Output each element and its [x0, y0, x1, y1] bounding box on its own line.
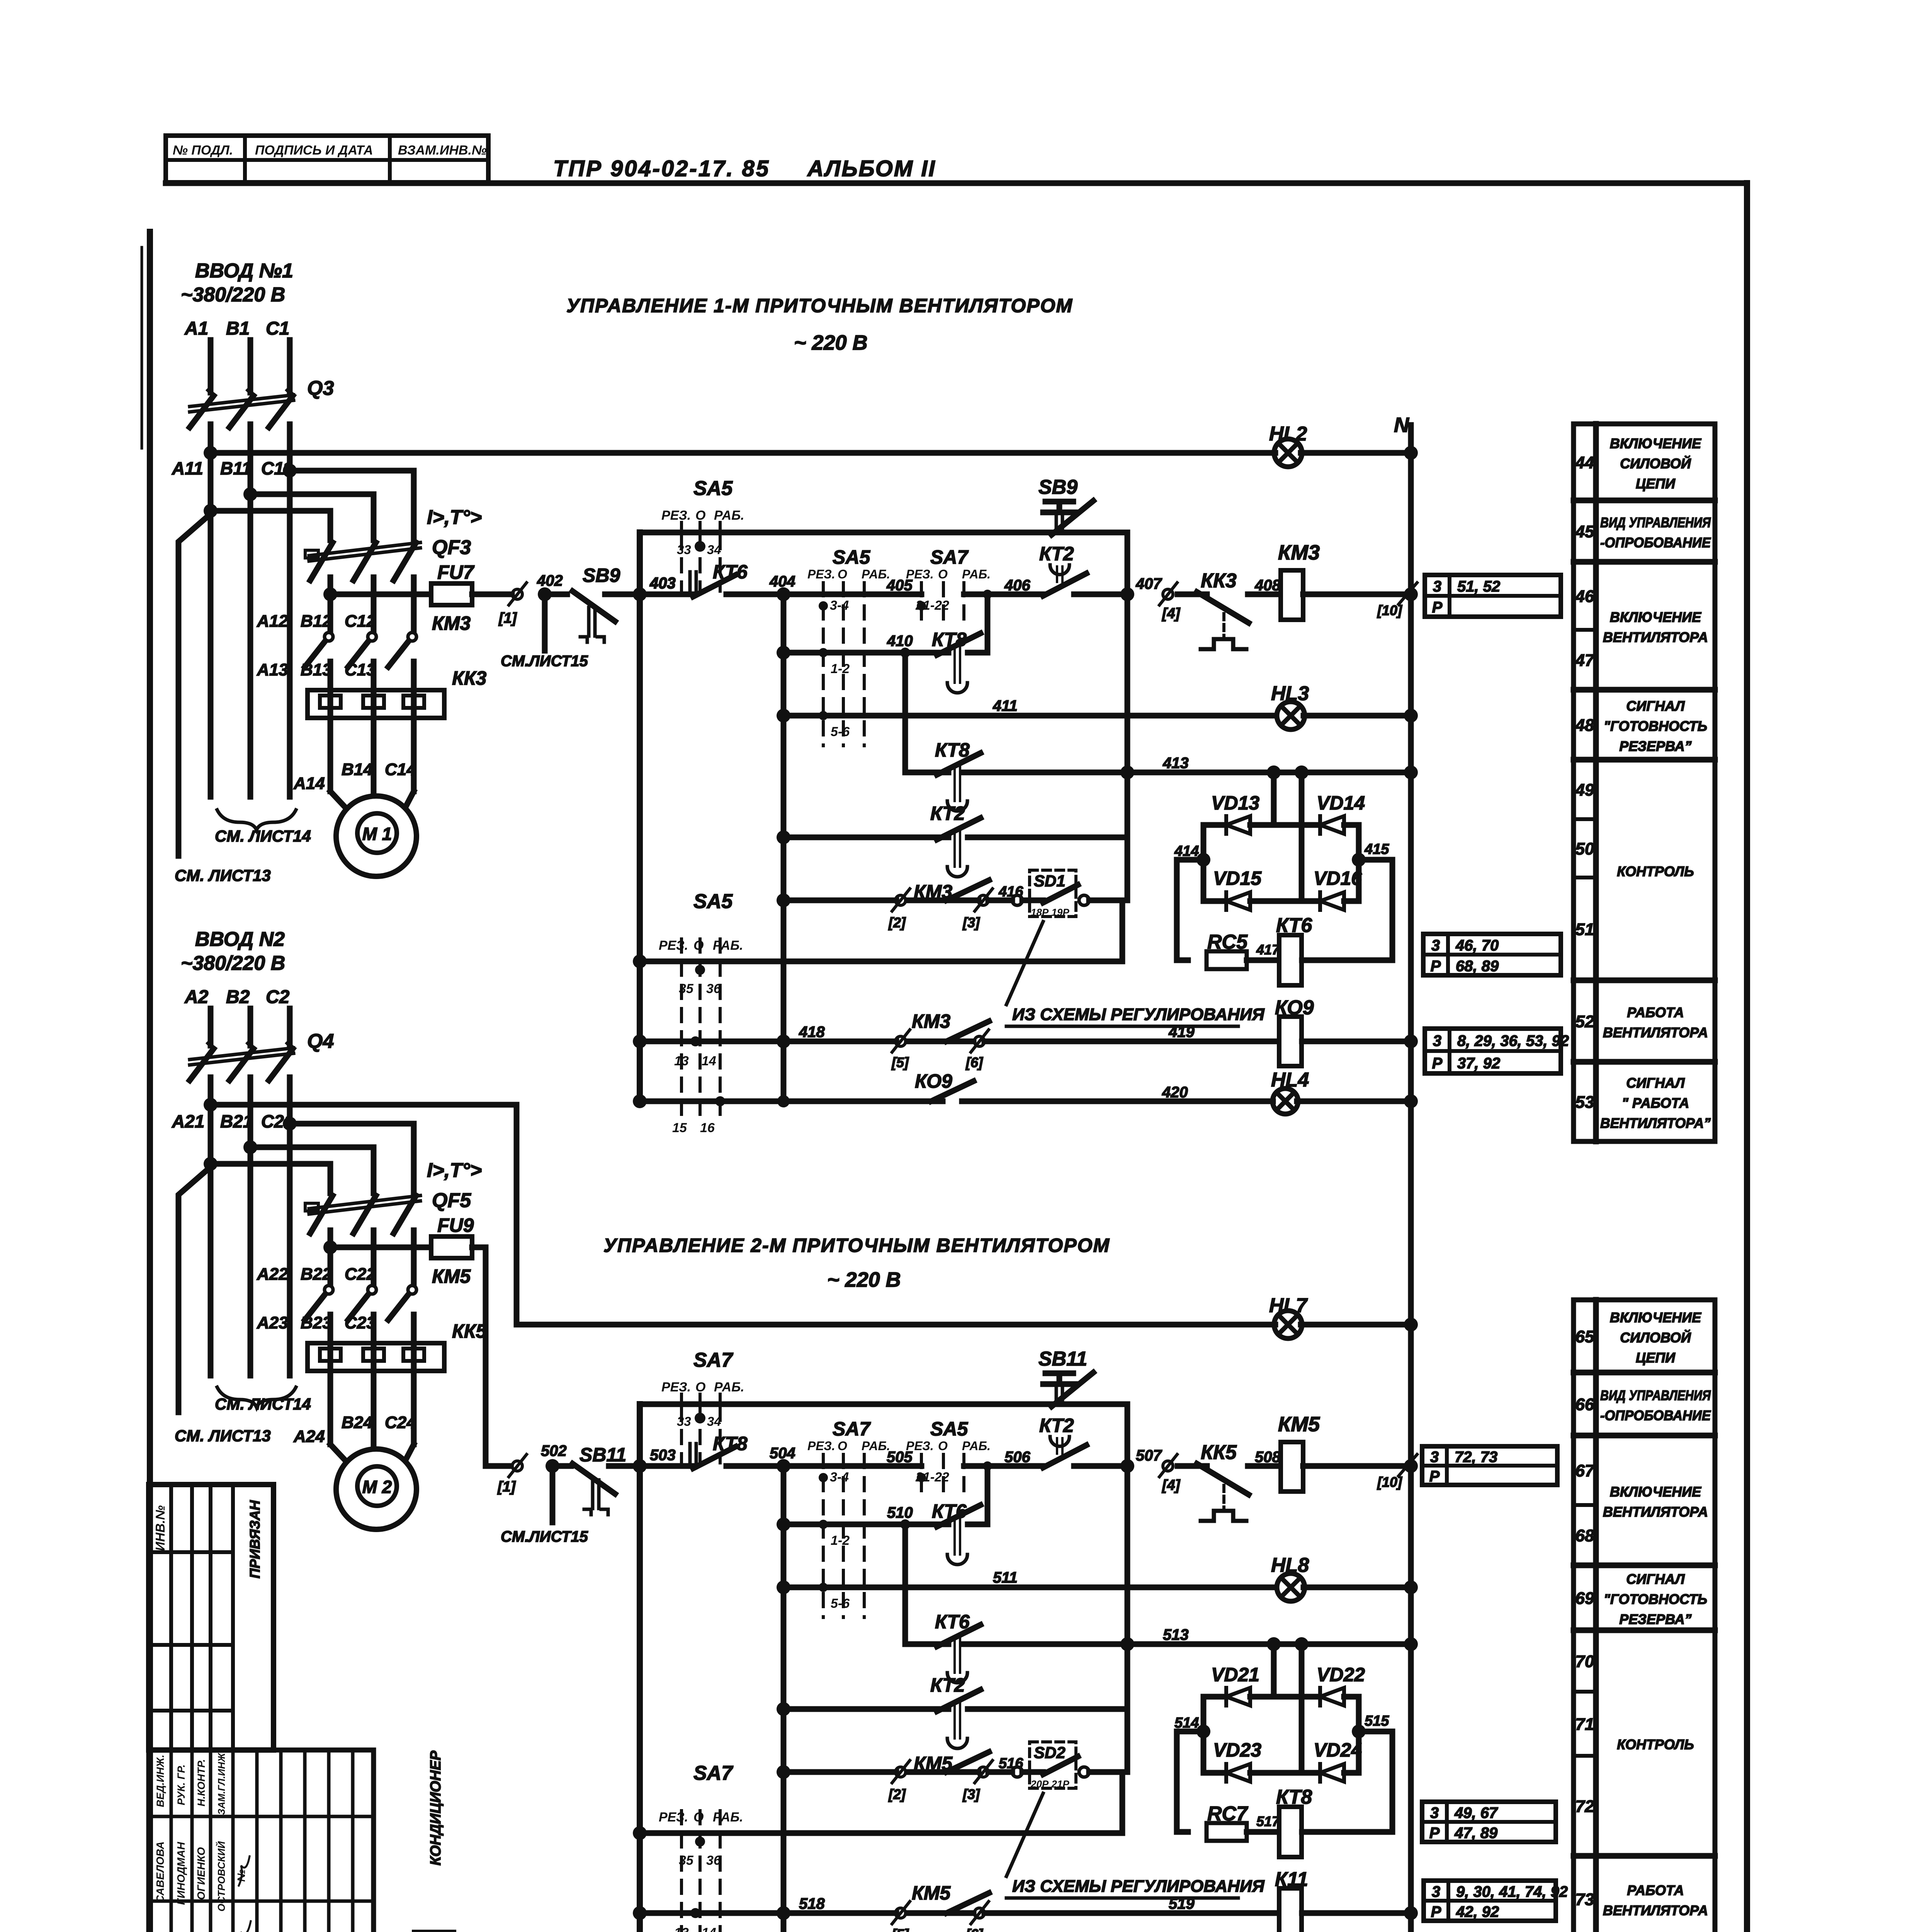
svg-text:35: 35: [679, 981, 694, 996]
right vertical from SB: [1125, 1404, 1130, 1466]
svg-text:А12: А12: [257, 612, 288, 631]
svg-text:36: 36: [706, 981, 721, 996]
svg-text:13: 13: [674, 1054, 689, 1068]
svg-text:С14: С14: [385, 760, 416, 779]
svg-text:ТПР 904-02-17. 85: ТПР 904-02-17. 85: [553, 156, 770, 181]
svg-text:М 1: М 1: [362, 824, 392, 844]
svg-text:21-22: 21-22: [915, 1470, 949, 1485]
svg-text:КТ2: КТ2: [930, 803, 965, 824]
svg-text:КК3: КК3: [452, 667, 486, 689]
svg-text:№: №: [235, 1869, 247, 1882]
svg-text:А1: А1: [184, 318, 208, 339]
svg-text:ИЗ СХЕМЫ РЕГУЛИРОВАНИЯ: ИЗ СХЕМЫ РЕГУЛИРОВАНИЯ: [1012, 1005, 1265, 1024]
svg-text:34: 34: [707, 543, 721, 557]
wire 503: [633, 1459, 647, 1473]
svg-text:[4]: [4]: [1162, 1477, 1181, 1493]
svg-text:48: 48: [1575, 716, 1594, 735]
svg-text:5-6: 5-6: [831, 1596, 850, 1611]
svg-text:73: 73: [1575, 1890, 1594, 1909]
svg-text:3: 3: [1432, 1883, 1440, 1900]
svg-text:3-4: 3-4: [830, 1470, 849, 1485]
svg-text:РЕЗ.: РЕЗ.: [906, 567, 934, 581]
wires to motor: [328, 718, 333, 791]
svg-text:1-2: 1-2: [831, 1533, 850, 1548]
svg-text:СМ. ЛИСТ14: СМ. ЛИСТ14: [215, 1395, 311, 1413]
svg-text:72: 72: [1575, 1797, 1594, 1816]
svg-text:РАБОТА: РАБОТА: [1627, 1005, 1684, 1020]
diode bridge left vertical: [1201, 1697, 1207, 1773]
svg-text:15: 15: [672, 1121, 687, 1135]
cross-reference box 3:8,29,36,53,92: [1425, 1029, 1561, 1073]
svg-text:РАБ.: РАБ.: [713, 1810, 743, 1825]
svg-text:411: 411: [992, 697, 1018, 714]
svg-text:ИЗ СХЕМЫ РЕГУЛИРОВАНИЯ: ИЗ СХЕМЫ РЕГУЛИРОВАНИЯ: [1012, 1877, 1265, 1896]
svg-text:HL2: HL2: [1269, 423, 1307, 445]
wire 35-36 row: [633, 1826, 647, 1840]
node 402: [538, 587, 552, 601]
svg-text:13: 13: [674, 1925, 689, 1932]
fuse row tap at pole A: [323, 1240, 337, 1254]
svg-text:ВИД УПРАВЛЕНИЯ: ВИД УПРАВЛЕНИЯ: [1600, 1388, 1711, 1403]
fuse FU7: [431, 583, 472, 605]
wire coil to N: [1303, 592, 1411, 597]
svg-text:ЗАМ.ГЛ.ИНЖ: ЗАМ.ГЛ.ИНЖ: [216, 1752, 227, 1815]
svg-text:С24: С24: [385, 1413, 416, 1432]
wire 420 to lamp: [962, 1099, 1273, 1104]
svg-text:SD1: SD1: [1034, 872, 1066, 890]
wire 406: [964, 592, 1043, 597]
wire to sheet15 feeder2: [550, 1466, 556, 1522]
svg-text:[2]: [2]: [888, 915, 906, 930]
svg-text:РЕЗ.: РЕЗ.: [659, 938, 688, 953]
svg-text:А14: А14: [293, 774, 325, 793]
relay contact КТ2 row: [777, 1702, 790, 1716]
wire FU9 to row 502: [472, 1247, 510, 1466]
svg-text:3-4: 3-4: [830, 598, 849, 613]
vertical 35-36 row to coil row: [1120, 900, 1125, 961]
wire coil to N: [1303, 1463, 1411, 1469]
svg-text:В23: В23: [301, 1313, 332, 1332]
wire 506: [964, 1463, 1043, 1469]
wire 420: [633, 1094, 647, 1108]
svg-text:71: 71: [1575, 1715, 1594, 1734]
svg-text:Р: Р: [1431, 1903, 1441, 1920]
diode bridge right vertical: [1356, 825, 1362, 901]
title block signature grid: [149, 1750, 374, 1932]
right vertical from SB: [1125, 532, 1130, 594]
disconnect switch Q3: [190, 396, 214, 427]
wire feed row to N: [1301, 1322, 1411, 1328]
svg-text:А21: А21: [172, 1111, 204, 1131]
svg-text:КТ2: КТ2: [930, 1674, 965, 1696]
tap of phase C to breaker: [283, 464, 297, 478]
svg-text:VD16: VD16: [1314, 867, 1362, 889]
svg-text:ВЕНТИЛЯТОРА: ВЕНТИЛЯТОРА: [1603, 1504, 1708, 1520]
svg-text:РЕЗ.: РЕЗ.: [807, 1439, 835, 1453]
svg-text:[5]: [5]: [891, 1054, 909, 1070]
svg-text:РЕЗ.: РЕЗ.: [661, 1380, 691, 1395]
detachable link [1]: [512, 589, 522, 599]
wire 411: [777, 709, 790, 723]
svg-text:СМ.ЛИСТ15: СМ.ЛИСТ15: [501, 1528, 588, 1545]
svg-text:РАБ.: РАБ.: [862, 567, 890, 581]
wire 418: [633, 1034, 647, 1048]
svg-text:Р: Р: [1432, 599, 1443, 616]
svg-text:-ОПРОБОВАНИЕ: -ОПРОБОВАНИЕ: [1600, 535, 1711, 551]
svg-text:УПРАВЛЕНИЕ 1-М ПРИТОЧНЫМ ВЕ: УПРАВЛЕНИЕ 1-М ПРИТОЧНЫМ ВЕНТИЛЯТОРОМ: [566, 295, 1073, 316]
svg-text:[2]: [2]: [888, 1786, 906, 1802]
bus vertical left: [637, 532, 643, 1101]
wire 519 to N: [1302, 1910, 1411, 1916]
regulation scheme note: [1006, 1793, 1043, 1876]
branch to sheet13: [178, 514, 211, 856]
svg-text:SB9: SB9: [583, 565, 620, 586]
svg-text:513: 513: [1163, 1626, 1189, 1643]
svg-text:42, 92: 42, 92: [1456, 1903, 1499, 1920]
svg-text:52: 52: [1575, 1012, 1594, 1031]
svg-text:[10]: [10]: [1377, 602, 1402, 618]
svg-text:518: 518: [799, 1895, 825, 1912]
title block upper grid: [149, 1485, 274, 1750]
cross-reference box 3:46,70: [1423, 934, 1561, 975]
plug connector SD1: [1030, 870, 1076, 917]
svg-text:[6]: [6]: [965, 1054, 983, 1070]
svg-text:КОНТРОЛЬ: КОНТРОЛЬ: [1617, 1736, 1694, 1752]
svg-text:В1: В1: [226, 318, 250, 339]
wire feed row 1 from phase A to HL2: [204, 446, 218, 460]
svg-text:[4]: [4]: [1162, 605, 1181, 622]
svg-text:В12: В12: [301, 612, 332, 631]
svg-text:О: О: [695, 1380, 705, 1395]
svg-text:416: 416: [998, 884, 1023, 900]
wire 407: [1074, 592, 1127, 597]
svg-text:РЕЗ.: РЕЗ.: [661, 508, 691, 523]
svg-text:РАБ.: РАБ.: [713, 938, 743, 953]
svg-text:А23: А23: [257, 1313, 288, 1332]
svg-text:В13: В13: [301, 660, 332, 679]
wire coil КТ6 to node 415: [1302, 957, 1392, 963]
svg-text:510: 510: [887, 1504, 913, 1521]
svg-text:В14: В14: [342, 760, 373, 779]
svg-text:3: 3: [1433, 578, 1441, 595]
svg-text:ОСТРОВСКИЙ: ОСТРОВСКИЙ: [216, 1841, 227, 1912]
phase wires А2 В2 С2: [208, 1009, 214, 1046]
svg-text:С12: С12: [345, 612, 376, 631]
svg-text:18Р 19Р: 18Р 19Р: [1031, 906, 1069, 918]
svg-text:8, 29, 36, 53, 92: 8, 29, 36, 53, 92: [1457, 1032, 1569, 1049]
auxiliary contact КМ5 with SD row 516: [777, 1765, 790, 1779]
svg-text:VD22: VD22: [1317, 1664, 1365, 1685]
node 414: [1196, 853, 1210, 867]
tap of phase B to breaker: [243, 487, 257, 501]
breaker pole wires: [328, 1230, 333, 1284]
svg-text:QF5: QF5: [432, 1189, 471, 1212]
wire 511 to N: [1303, 1585, 1411, 1590]
jog vertical to 406: [985, 594, 991, 653]
svg-text:VD13: VD13: [1211, 792, 1259, 814]
svg-text:РАБ.: РАБ.: [714, 508, 744, 523]
auxiliary contact КМ3 with SD row 416: [777, 893, 790, 907]
svg-text:N: N: [1394, 413, 1409, 437]
wire 401 top bus: [640, 530, 1127, 536]
svg-text:ВЕНТИЛЯТОРА: ВЕНТИЛЯТОРА: [1603, 629, 1708, 645]
svg-text:СИГНАЛ: СИГНАЛ: [1626, 1075, 1685, 1091]
svg-text:А11: А11: [172, 458, 203, 478]
svg-text:515: 515: [1365, 1713, 1389, 1729]
svg-text:РЕЗ.: РЕЗ.: [906, 1439, 934, 1453]
svg-text:Р: Р: [1429, 1825, 1440, 1842]
svg-text:3: 3: [1430, 1804, 1439, 1821]
svg-text:508: 508: [1255, 1449, 1281, 1466]
svg-text:О: О: [695, 508, 705, 523]
wire 508: [1248, 1463, 1281, 1469]
svg-text:КК3: КК3: [1201, 570, 1237, 592]
svg-text:45: 45: [1575, 522, 1594, 541]
bus vertical left: [637, 1404, 643, 1932]
svg-text:~ 220 В: ~ 220 В: [827, 1268, 901, 1291]
svg-text:SA7: SA7: [833, 1418, 871, 1440]
svg-text:SD2: SD2: [1034, 1743, 1066, 1762]
svg-text:РАБОТА: РАБОТА: [1627, 1883, 1684, 1898]
wire 502 to bus 2: [633, 1459, 647, 1473]
wire 403: [633, 587, 647, 601]
tap of phase A to breaker: [204, 504, 218, 518]
vertical from 410 down: [900, 648, 910, 658]
svg-text:3: 3: [1430, 1449, 1439, 1466]
svg-text:14: 14: [702, 1925, 716, 1932]
svg-text:А13: А13: [257, 660, 288, 679]
svg-text:С22: С22: [345, 1265, 376, 1284]
svg-text:"ГОТОВНОСТЬ: "ГОТОВНОСТЬ: [1604, 1591, 1707, 1607]
function table frame: [1574, 1300, 1715, 1932]
svg-text:ВЕНТИЛЯТОРА”: ВЕНТИЛЯТОРА”: [1600, 1115, 1711, 1131]
svg-text:SA5: SA5: [930, 1418, 968, 1440]
svg-text:SA5: SA5: [693, 477, 733, 500]
detachable link [1] feeder2: [512, 1461, 522, 1471]
svg-text:ЦЕПИ: ЦЕПИ: [1636, 476, 1676, 492]
detachable link [4]: [1163, 589, 1173, 599]
svg-text:[5]: [5]: [891, 1926, 909, 1932]
motor М 1: [336, 796, 416, 876]
svg-text:Н.КОНТР.: Н.КОНТР.: [195, 1759, 207, 1806]
brace see sheet 14: [217, 810, 296, 830]
svg-text:ПОДПИСЬ И ДАТА: ПОДПИСЬ И ДАТА: [255, 143, 373, 158]
thermal overload relay КК5: [308, 1343, 444, 1371]
svg-text:КМ5: КМ5: [1278, 1413, 1320, 1436]
svg-text:Р: Р: [1432, 1055, 1443, 1072]
svg-text:РАБ.: РАБ.: [714, 1380, 744, 1395]
wire to sheet15: [542, 594, 548, 651]
svg-text:37, 92: 37, 92: [1457, 1055, 1500, 1072]
wire coil КТ8 to node 515: [1302, 1829, 1392, 1835]
svg-text:9, 30, 41, 74, 92: 9, 30, 41, 74, 92: [1456, 1883, 1568, 1900]
diode bridge right vertical: [1356, 1697, 1362, 1773]
svg-text:36: 36: [706, 1853, 721, 1868]
svg-text:КТ2: КТ2: [1039, 543, 1074, 565]
svg-text:14: 14: [702, 1054, 716, 1068]
svg-text:ВКЛЮЧЕНИЕ: ВКЛЮЧЕНИЕ: [1610, 1484, 1701, 1500]
svg-text:[10]: [10]: [1377, 1474, 1402, 1490]
wire 519: [984, 1910, 1280, 1916]
svg-text:VD24: VD24: [1314, 1739, 1362, 1761]
svg-text:404: 404: [769, 573, 795, 590]
svg-text:О: О: [938, 567, 948, 581]
svg-text:~380/220 В: ~380/220 В: [181, 952, 285, 975]
svg-text:503: 503: [650, 1447, 676, 1464]
svg-text:SA5: SA5: [833, 546, 870, 568]
svg-text:QF3: QF3: [432, 536, 471, 559]
svg-text:SB11: SB11: [580, 1444, 626, 1466]
svg-text:35: 35: [679, 1853, 694, 1868]
svg-text:КМ3: КМ3: [1278, 541, 1320, 564]
svg-text:ВВОД №1: ВВОД №1: [195, 260, 293, 282]
svg-text:~ 220 В: ~ 220 В: [794, 331, 868, 354]
contactor pole wires: [328, 1315, 333, 1343]
svg-text:КТ6: КТ6: [935, 1611, 970, 1633]
svg-text:ВЕНТИЛЯТОРА: ВЕНТИЛЯТОРА: [1603, 1903, 1708, 1918]
svg-text:ГИНОДМАН: ГИНОДМАН: [175, 1842, 187, 1905]
sheet frame left border: [147, 232, 153, 1932]
wire FU7 to link [1]: [472, 592, 512, 597]
svg-text:[1]: [1]: [497, 1479, 516, 1495]
svg-text:I>,T°>: I>,T°>: [427, 1159, 482, 1182]
fuse row tap at pole A: [323, 587, 337, 601]
svg-text:47: 47: [1575, 651, 1595, 670]
phase wires below switch: [208, 1077, 214, 1376]
svg-text:415: 415: [1364, 841, 1389, 857]
cross-reference box 3:72,73: [1422, 1446, 1557, 1485]
svg-text:403: 403: [649, 575, 676, 592]
branch to sheet13: [178, 1167, 211, 1412]
wire 408: [1248, 592, 1281, 597]
svg-text:[3]: [3]: [962, 1786, 980, 1802]
wire 420 to N: [1297, 1099, 1411, 1104]
contactor pole wires: [328, 662, 333, 690]
svg-text:ВВОД N2: ВВОД N2: [195, 928, 285, 951]
relay contact КТ2 row: [777, 830, 790, 844]
svg-text:РУК. ГР.: РУК. ГР.: [175, 1764, 187, 1805]
node 502: [546, 1459, 559, 1473]
wire 514 down to RC: [1174, 1731, 1180, 1832]
svg-text:ОГИЕНКО: ОГИЕНКО: [195, 1847, 207, 1900]
fuse FU9: [431, 1236, 472, 1258]
svg-text:406: 406: [1004, 577, 1030, 594]
svg-text:В11: В11: [220, 458, 252, 478]
svg-text:~380/220 В: ~380/220 В: [181, 284, 285, 306]
jog vertical to 506: [985, 1466, 991, 1524]
wire feed row 2 to lamp HL7: [517, 1322, 1275, 1328]
svg-text:ИНВ.№: ИНВ.№: [153, 1505, 167, 1551]
svg-text:РЕЗЕРВА”: РЕЗЕРВА”: [1619, 738, 1691, 754]
svg-text:3: 3: [1433, 1032, 1441, 1049]
function table row lines: [1574, 498, 1715, 503]
wire 518: [633, 1906, 647, 1920]
phase wires below switch: [208, 424, 214, 797]
svg-text:[1]: [1]: [498, 610, 517, 626]
phase wires А1 В1 С1: [208, 340, 214, 393]
svg-text:SA7: SA7: [693, 1349, 733, 1371]
svg-text:КМ3: КМ3: [912, 1010, 950, 1032]
disconnect switch Q4: [190, 1049, 214, 1080]
svg-text:О: О: [838, 567, 847, 581]
detachable link [4]: [1163, 1461, 1173, 1471]
svg-text:FU7: FU7: [437, 561, 475, 583]
svg-text:В21: В21: [220, 1111, 253, 1131]
svg-text:В22: В22: [301, 1265, 332, 1284]
svg-text:67: 67: [1575, 1461, 1595, 1480]
diode bridge left vertical: [1201, 825, 1207, 901]
vertical feeder after 504: [781, 1466, 787, 1932]
svg-text:ВКЛЮЧЕНИЕ: ВКЛЮЧЕНИЕ: [1610, 609, 1701, 625]
svg-text:С2: С2: [266, 987, 290, 1007]
svg-text:О: О: [938, 1439, 948, 1453]
thermal overload relay КК3: [308, 690, 444, 718]
svg-text:410: 410: [887, 633, 913, 650]
node 504: [777, 1459, 790, 1473]
svg-text:408: 408: [1254, 577, 1281, 594]
circuit breaker QF5: [310, 1196, 333, 1233]
svg-text:№ ПОДЛ.: № ПОДЛ.: [173, 143, 233, 158]
wire 35-36 row: [633, 954, 647, 968]
svg-text:УПРАВЛЕНИЕ 2-М ПРИТОЧНЫМ ВЕ: УПРАВЛЕНИЕ 2-М ПРИТОЧНЫМ ВЕНТИЛЯТОРОМ: [603, 1235, 1110, 1256]
svg-text:53: 53: [1575, 1093, 1594, 1112]
svg-text:SB11: SB11: [1038, 1348, 1087, 1370]
vertical 507 down: [1125, 1466, 1130, 1772]
svg-text:КК5: КК5: [452, 1320, 487, 1342]
node 514: [1196, 1725, 1210, 1738]
wire 411 to N: [1303, 713, 1411, 719]
svg-text:33: 33: [677, 543, 691, 557]
svg-text:49: 49: [1575, 781, 1594, 799]
wire 513: [962, 1641, 1411, 1647]
vertical from 510 down: [900, 1519, 910, 1529]
svg-text:ПРИВЯЗАН: ПРИВЯЗАН: [247, 1500, 263, 1578]
svg-text:ВИД УПРАВЛЕНИЯ: ВИД УПРАВЛЕНИЯ: [1600, 515, 1711, 531]
svg-text:РЕЗ.: РЕЗ.: [659, 1810, 688, 1825]
svg-text:46, 70: 46, 70: [1455, 937, 1499, 954]
svg-text:КМ5: КМ5: [432, 1265, 471, 1287]
svg-text:ВЕД.ИНЖ.: ВЕД.ИНЖ.: [155, 1755, 166, 1807]
svg-text:506: 506: [1004, 1449, 1030, 1466]
svg-text:402: 402: [537, 572, 563, 589]
wire 405: [783, 592, 921, 597]
svg-text:СМ. ЛИСТ13: СМ. ЛИСТ13: [175, 866, 271, 884]
svg-text:511: 511: [993, 1569, 1018, 1586]
svg-text:VD15: VD15: [1213, 867, 1262, 889]
tap of phase C to breaker: [283, 1117, 297, 1131]
svg-text:51: 51: [1575, 920, 1594, 939]
svg-text:ВКЛЮЧЕНИЕ: ВКЛЮЧЕНИЕ: [1610, 435, 1701, 451]
wire 410: [777, 646, 790, 660]
plug connector SD2: [1030, 1742, 1076, 1788]
svg-text:КОНТРОЛЬ: КОНТРОЛЬ: [1617, 864, 1694, 879]
svg-text:РАБ.: РАБ.: [962, 567, 991, 581]
svg-text:3: 3: [1431, 937, 1440, 954]
sheet frame top border: [166, 180, 1747, 186]
svg-text:Q4: Q4: [307, 1030, 334, 1053]
svg-text:69: 69: [1575, 1589, 1594, 1608]
svg-text:КМ3: КМ3: [432, 612, 471, 634]
svg-text:517: 517: [1256, 1813, 1280, 1829]
svg-text:47, 89: 47, 89: [1454, 1825, 1498, 1842]
svg-text:1-2: 1-2: [831, 662, 850, 676]
svg-text:"ГОТОВНОСТЬ: "ГОТОВНОСТЬ: [1604, 718, 1707, 734]
wire 505: [783, 1463, 921, 1469]
wire 507: [1074, 1463, 1127, 1469]
svg-text:SA5: SA5: [693, 890, 733, 913]
svg-text:Q3: Q3: [307, 377, 334, 400]
sheet frame right border: [1744, 183, 1750, 1932]
